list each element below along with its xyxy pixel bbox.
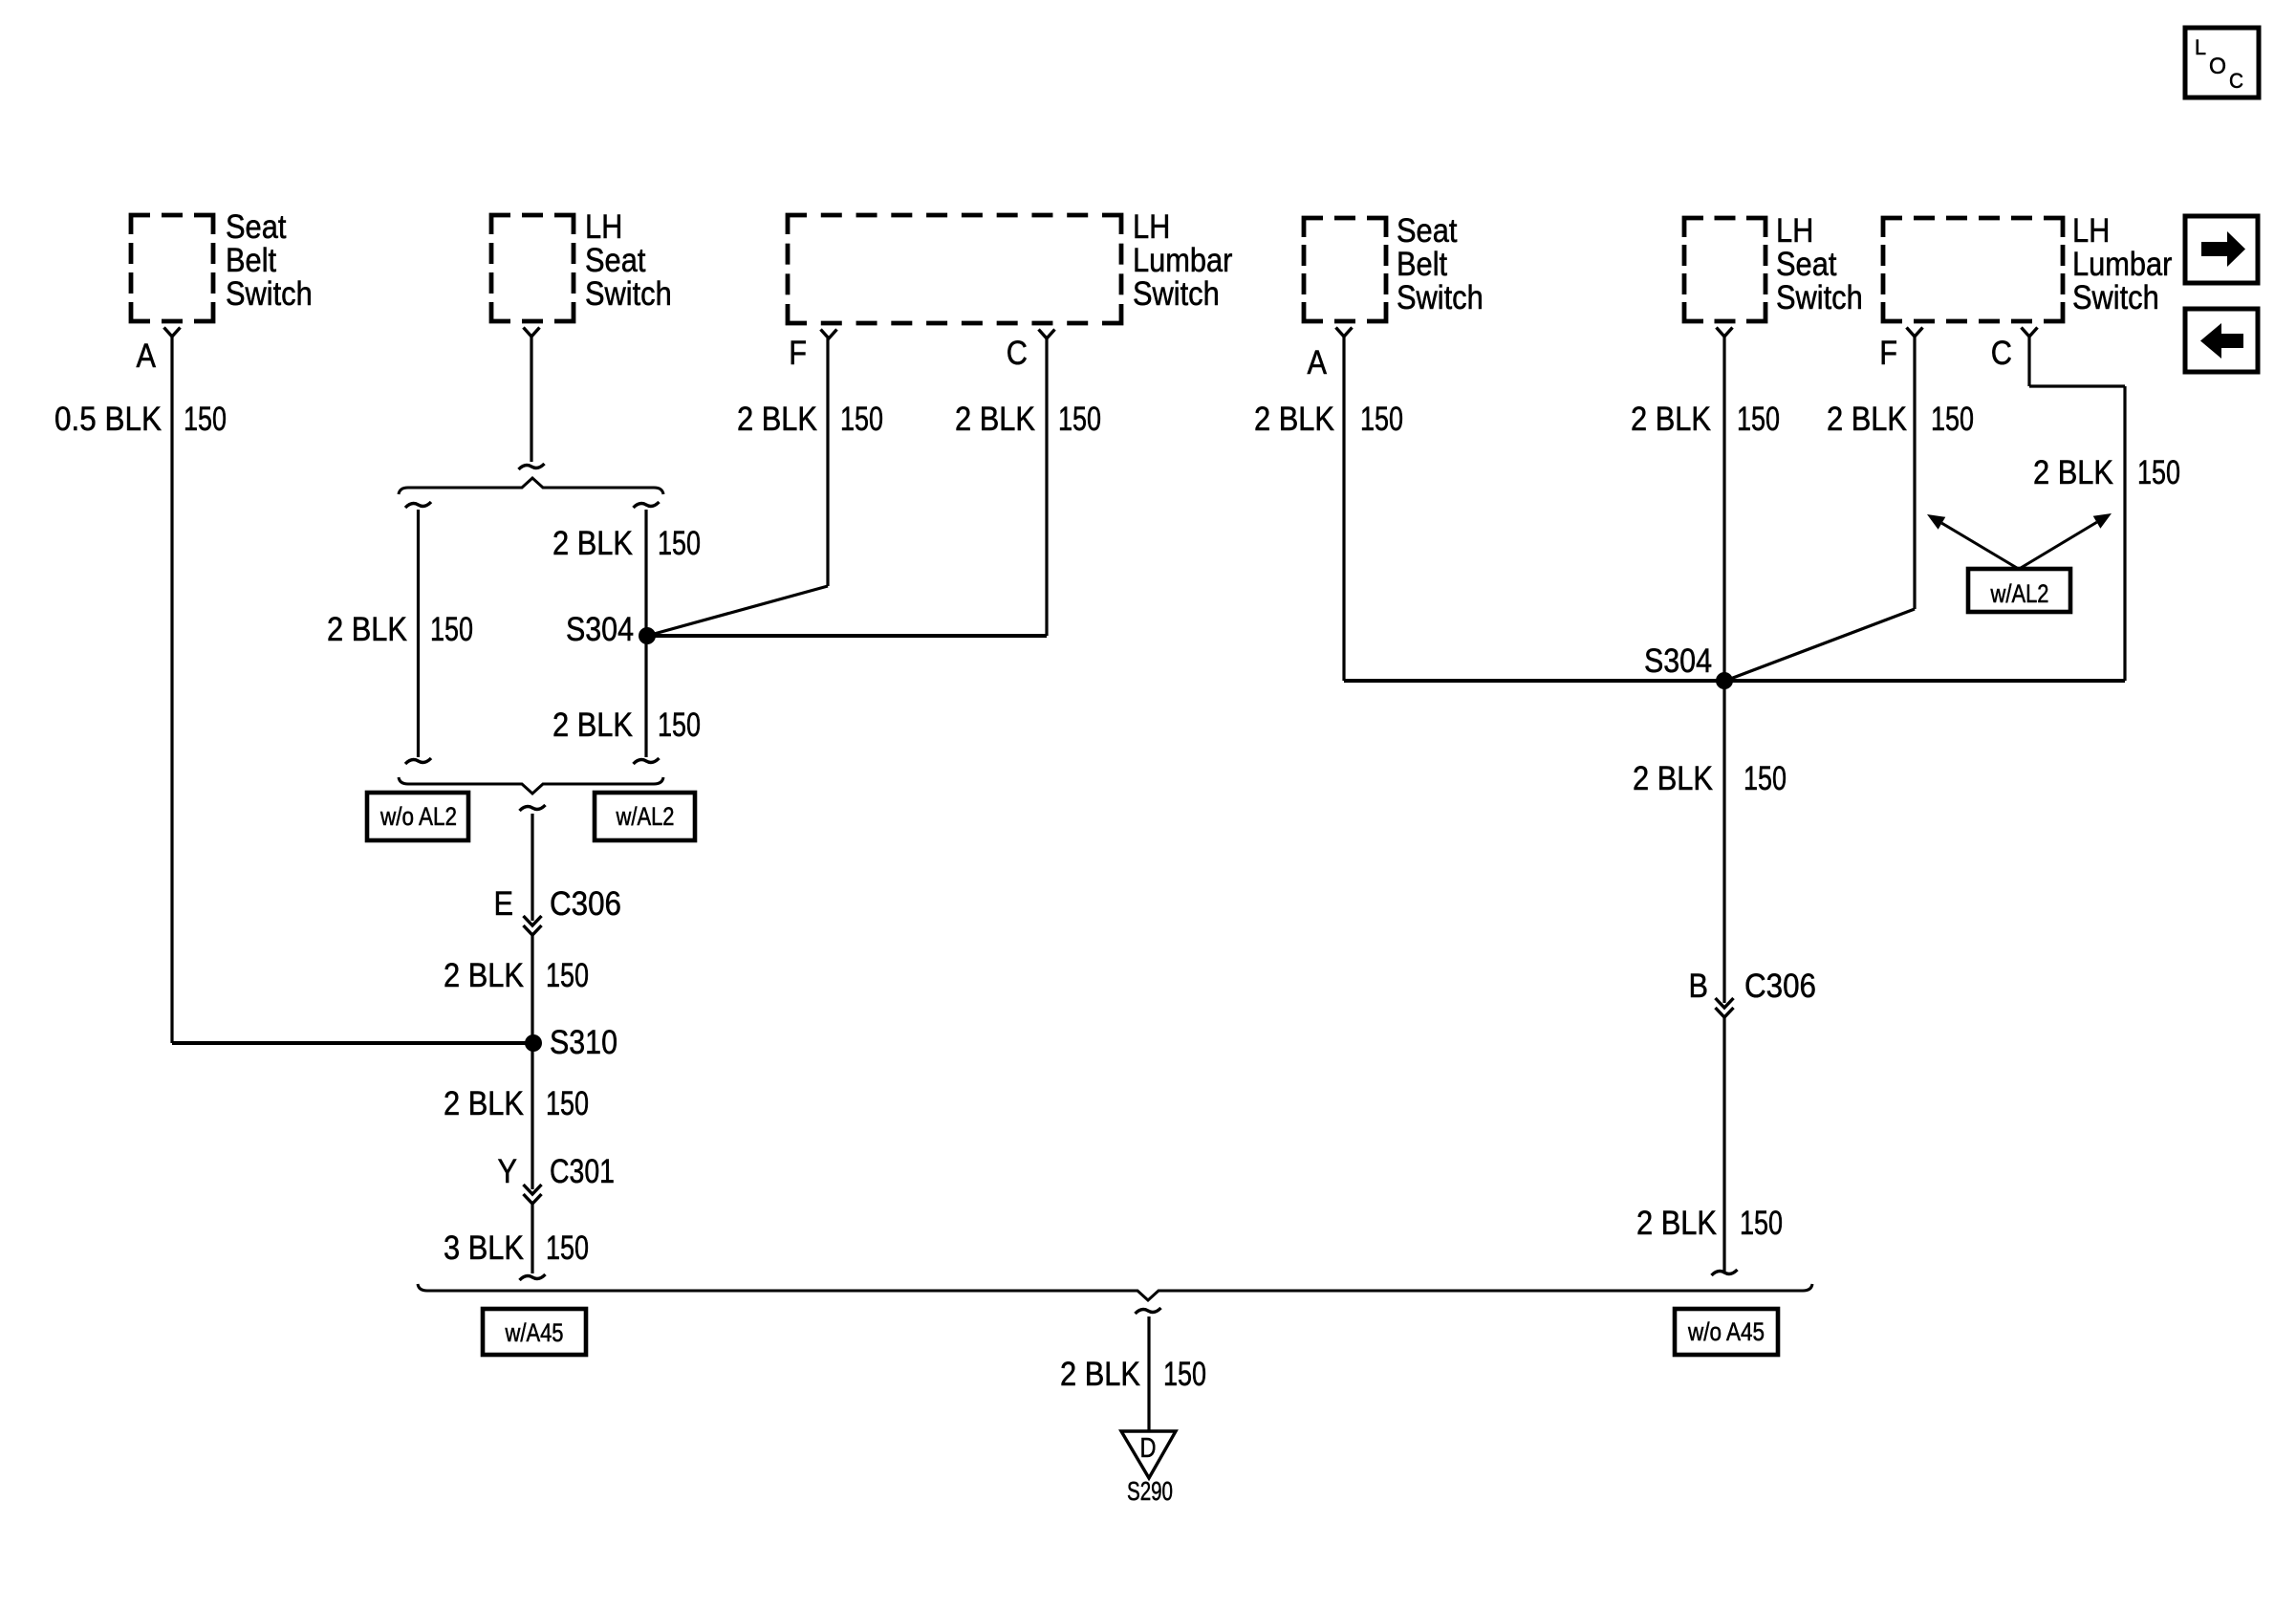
svg-text:O: O xyxy=(2209,54,2226,79)
svg-text:150: 150 xyxy=(430,611,473,648)
svg-text:2 BLK: 2 BLK xyxy=(1633,760,1713,797)
svg-text:150: 150 xyxy=(1360,401,1403,438)
svg-text:S304: S304 xyxy=(566,611,634,648)
svg-text:3 BLK: 3 BLK xyxy=(444,1229,524,1267)
svg-text:Switch: Switch xyxy=(1776,279,1863,316)
svg-text:150: 150 xyxy=(546,957,589,994)
svg-text:2 BLK: 2 BLK xyxy=(737,401,817,438)
svg-text:Switch: Switch xyxy=(585,275,672,313)
svg-text:0.5 BLK: 0.5 BLK xyxy=(54,401,162,438)
svg-text:Switch: Switch xyxy=(2072,279,2159,316)
svg-text:S310: S310 xyxy=(550,1024,617,1061)
svg-text:Switch: Switch xyxy=(1397,279,1484,316)
svg-text:150: 150 xyxy=(1931,401,1974,438)
svg-text:150: 150 xyxy=(658,525,701,562)
svg-text:2 BLK: 2 BLK xyxy=(552,525,633,562)
svg-text:150: 150 xyxy=(2137,454,2180,491)
svg-text:F: F xyxy=(1879,335,1897,372)
svg-text:150: 150 xyxy=(184,401,227,438)
svg-text:D: D xyxy=(1140,1433,1157,1464)
svg-text:150: 150 xyxy=(1744,760,1787,797)
svg-text:w/AL2: w/AL2 xyxy=(1990,579,2049,608)
svg-text:150: 150 xyxy=(1740,1205,1783,1242)
svg-text:LH: LH xyxy=(2072,212,2110,250)
svg-text:2 BLK: 2 BLK xyxy=(327,611,407,648)
svg-text:2 BLK: 2 BLK xyxy=(955,401,1035,438)
svg-text:C: C xyxy=(2229,69,2243,93)
svg-text:w/o AL2: w/o AL2 xyxy=(379,802,457,831)
svg-text:150: 150 xyxy=(1737,401,1780,438)
svg-text:Lumbar: Lumbar xyxy=(1133,242,1233,279)
svg-text:2 BLK: 2 BLK xyxy=(552,707,633,744)
svg-text:Seat: Seat xyxy=(226,208,287,246)
svg-text:Belt: Belt xyxy=(1397,246,1447,283)
svg-text:150: 150 xyxy=(658,707,701,744)
svg-text:LH: LH xyxy=(1133,208,1170,246)
svg-text:B: B xyxy=(1689,968,1709,1005)
svg-text:C: C xyxy=(1991,335,2012,372)
svg-text:150: 150 xyxy=(546,1229,589,1267)
svg-text:2 BLK: 2 BLK xyxy=(444,1085,524,1122)
svg-text:Seat: Seat xyxy=(1776,246,1837,283)
svg-text:150: 150 xyxy=(1163,1356,1206,1393)
svg-text:L: L xyxy=(2195,35,2206,59)
svg-text:S290: S290 xyxy=(1127,1476,1173,1506)
svg-text:C301: C301 xyxy=(550,1153,615,1190)
svg-text:Belt: Belt xyxy=(226,242,276,279)
svg-text:Switch: Switch xyxy=(1133,275,1220,313)
svg-text:w/A45: w/A45 xyxy=(505,1318,564,1347)
svg-text:LH: LH xyxy=(1776,212,1813,250)
svg-text:C: C xyxy=(1007,335,1028,372)
svg-text:Seat: Seat xyxy=(585,242,646,279)
svg-text:S304: S304 xyxy=(1644,642,1712,680)
svg-text:LH: LH xyxy=(585,208,622,246)
svg-text:F: F xyxy=(789,335,807,372)
svg-text:2 BLK: 2 BLK xyxy=(1254,401,1334,438)
svg-text:2 BLK: 2 BLK xyxy=(1631,401,1711,438)
svg-text:w/AL2: w/AL2 xyxy=(616,802,675,831)
svg-text:150: 150 xyxy=(840,401,883,438)
svg-text:2 BLK: 2 BLK xyxy=(2033,454,2113,491)
svg-text:A: A xyxy=(137,337,157,375)
svg-text:C306: C306 xyxy=(550,885,621,923)
svg-text:2 BLK: 2 BLK xyxy=(1060,1356,1140,1393)
svg-text:Seat: Seat xyxy=(1397,212,1458,250)
svg-text:E: E xyxy=(494,885,514,923)
svg-text:A: A xyxy=(1308,344,1328,381)
svg-text:2 BLK: 2 BLK xyxy=(1827,401,1907,438)
svg-text:150: 150 xyxy=(1058,401,1101,438)
svg-text:150: 150 xyxy=(546,1085,589,1122)
svg-text:Y: Y xyxy=(498,1153,518,1190)
svg-text:2 BLK: 2 BLK xyxy=(444,957,524,994)
svg-text:w/o A45: w/o A45 xyxy=(1687,1317,1765,1346)
svg-text:Switch: Switch xyxy=(226,275,313,313)
svg-text:2 BLK: 2 BLK xyxy=(1636,1205,1717,1242)
svg-text:Lumbar: Lumbar xyxy=(2072,246,2173,283)
svg-text:C306: C306 xyxy=(1744,968,1816,1005)
